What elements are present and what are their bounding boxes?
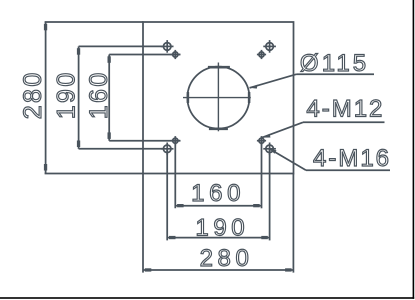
vertical centerline <box>217 63 219 132</box>
svg-text:160: 160 <box>191 180 245 207</box>
M12 hole bottom-right <box>257 136 266 145</box>
M16 hole bottom-right <box>263 143 276 156</box>
extension vertical 160 right <box>261 141 263 209</box>
center bore circle O115 <box>187 67 249 129</box>
tick dim280v bottom <box>44 164 47 171</box>
circle flat left chunk <box>187 92 190 103</box>
svg-text:190: 190 <box>195 215 249 242</box>
M12 hole top-left <box>171 50 180 59</box>
extension line 190 top <box>79 45 164 47</box>
M16 hole top-left <box>161 40 174 53</box>
M12 hole top-right <box>257 50 266 59</box>
extension line top 280 <box>45 21 144 23</box>
extension line bottom 280 <box>45 173 144 175</box>
extension vertical 280 right <box>292 174 294 273</box>
circle flat right chunk <box>248 92 251 103</box>
M16 hole bottom-left <box>161 143 174 156</box>
tick dim160h right <box>253 204 260 207</box>
tick dim190h right <box>261 236 268 239</box>
tick dim280v top <box>44 24 47 31</box>
extension vertical 280 left <box>142 174 144 273</box>
leader 4-M16 <box>270 149 306 170</box>
svg-text:280: 280 <box>200 245 254 272</box>
M16 hole top-right <box>263 40 276 53</box>
tick dim190h left <box>169 236 176 239</box>
dim line vertical 190 <box>78 46 80 148</box>
extension vertical 190 right <box>269 149 271 241</box>
arrowhead 4-M12 leader <box>262 134 271 138</box>
svg-text:4-M12: 4-M12 <box>306 95 384 122</box>
dim line vertical 160 <box>108 55 110 141</box>
image border bottom <box>0 297 414 299</box>
svg-text:280: 280 <box>19 70 47 119</box>
tick dim160v bottom <box>108 132 111 139</box>
tick dim160h left <box>177 204 184 207</box>
extension line 160 top <box>109 54 180 56</box>
underline 4-M16 <box>306 169 390 171</box>
leader O115 <box>250 74 297 88</box>
svg-text:4-M16: 4-M16 <box>313 145 391 172</box>
arrowhead 4-M16 leader <box>270 149 277 154</box>
tick dim280h left <box>145 268 152 271</box>
tick dim190v bottom <box>77 141 80 148</box>
horizontal centerline <box>183 97 251 99</box>
underline O115 <box>297 73 375 75</box>
M12 hole bottom-left <box>171 136 180 145</box>
tick dim190v top <box>77 48 80 55</box>
arrowhead O115 leader <box>250 85 258 89</box>
extension vertical 160 left <box>174 141 176 209</box>
extension line 190 bottom <box>79 148 164 150</box>
svg-text:190: 190 <box>52 70 80 119</box>
circle flat top chunk <box>208 66 230 69</box>
plate outline <box>143 22 294 174</box>
svg-text:Ø115: Ø115 <box>300 50 369 77</box>
dim line horizontal 160 <box>175 205 261 207</box>
dim line horizontal 190 <box>167 237 269 239</box>
tick dim280h right <box>285 268 292 271</box>
dim line horizontal 280 <box>143 269 293 271</box>
underline 4-M12 <box>303 121 385 123</box>
extension line 160 bottom <box>109 140 180 142</box>
tick dim160v top <box>108 56 111 63</box>
leader 4-M12 <box>262 122 303 137</box>
image border right <box>413 0 415 299</box>
svg-text:160: 160 <box>85 70 113 119</box>
extension vertical 190 left <box>166 149 168 241</box>
dim line vertical 280 <box>45 22 47 174</box>
circle flat bottom chunk <box>209 128 228 131</box>
